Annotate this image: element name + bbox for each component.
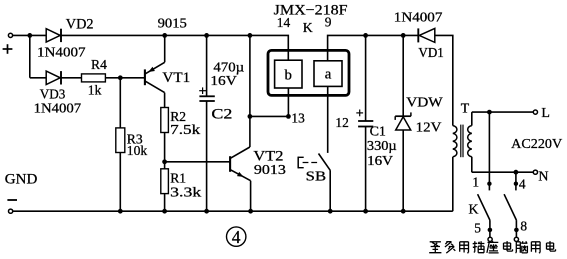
svg-text:VD3: VD3	[40, 87, 66, 102]
node L branch	[487, 110, 492, 115]
contact point 1	[487, 182, 491, 186]
wire node C to VT2 base	[165, 162, 230, 164]
diode VD2	[46, 29, 60, 42]
svg-text:8: 8	[520, 219, 527, 234]
wire C2 to ground	[206, 101, 208, 211]
wire R2 to R1	[164, 133, 166, 170]
svg-text:12: 12	[335, 115, 348, 130]
junction R1-ground	[162, 209, 167, 214]
svg-text:9015: 9015	[158, 16, 188, 31]
zener diode VDW	[396, 117, 411, 130]
svg-text:1k: 1k	[88, 83, 102, 98]
transformer T primary winding	[453, 126, 457, 157]
wire primary to ground rail	[452, 157, 454, 211]
svg-text:VD2: VD2	[66, 17, 94, 33]
wire top rail to C2	[206, 35, 208, 96]
svg-text:330µ: 330µ	[367, 138, 397, 153]
svg-text:L: L	[541, 106, 550, 121]
junction pin 13	[286, 114, 291, 119]
svg-text:16V: 16V	[367, 153, 393, 168]
wire top rail to C1	[365, 35, 367, 121]
switch K blade (1-5)	[478, 194, 490, 228]
capacitor C2	[199, 95, 214, 97]
junction VDW - top rail	[401, 33, 406, 38]
wire relay pin 13 (b to node D)	[287, 88, 289, 116]
label + (C1 polarity)	[356, 112, 363, 114]
contact point 5	[488, 228, 493, 233]
wire + down to VD3 branch	[30, 35, 47, 77]
wire top rail to VDW	[402, 35, 404, 116]
diode VD3	[46, 71, 60, 84]
switch SB blade	[319, 154, 331, 212]
terminal 8 output	[514, 237, 518, 241]
wire N down to contact 4	[515, 172, 517, 190]
svg-text:12V: 12V	[416, 121, 442, 136]
svg-text:b: b	[284, 68, 291, 84]
wire R1 to ground	[164, 194, 166, 212]
terminal + (positive input)	[8, 33, 12, 37]
junction R3-ground	[118, 209, 123, 214]
transistor VT2 collector	[230, 147, 250, 158]
junction SB-ground	[328, 209, 333, 214]
wire C1 to ground	[365, 127, 367, 212]
contact point 4	[514, 182, 518, 186]
svg-text:K: K	[469, 202, 479, 217]
wire VD3 to R4	[62, 77, 83, 79]
svg-text:14: 14	[277, 15, 291, 30]
wire secondary top to L	[472, 112, 534, 126]
label +	[3, 48, 13, 50]
resistor R2	[161, 108, 169, 133]
wire R4 to VT1 base	[105, 77, 144, 79]
svg-text:3.3k: 3.3k	[170, 184, 201, 199]
label figure number 4 (circled)	[227, 227, 246, 246]
node B (base of VT1 / R3)	[118, 75, 123, 80]
contact point 8	[514, 228, 519, 233]
transistor VT1 base bar	[144, 69, 146, 85]
svg-text:VD1: VD1	[418, 46, 443, 61]
svg-text:9013: 9013	[254, 162, 286, 177]
label + (C2 polarity)	[199, 90, 206, 92]
wire relay pin 14 (top rail into b)	[287, 50, 289, 60]
junction collector net - top rail	[248, 33, 253, 38]
svg-text:R1: R1	[170, 171, 186, 186]
svg-text:4: 4	[232, 227, 241, 247]
wire relay pin 9 (a to top rail)	[328, 35, 419, 60]
wire VD1 to transformer primary	[435, 35, 453, 125]
transistor VT1 collector (to R2)	[145, 81, 164, 107]
wire bottom rail (ground)	[13, 210, 453, 212]
wire relay pin 12 (a down to SB)	[327, 86, 329, 152]
svg-text:1N4007: 1N4007	[394, 10, 443, 25]
terminal GND	[9, 209, 13, 213]
wire secondary bottom to N	[472, 157, 534, 172]
svg-text:5: 5	[474, 221, 481, 236]
node D (relay coil node)	[248, 114, 253, 119]
wire node B down through R3 to ground	[119, 78, 121, 211]
svg-text:1N4007: 1N4007	[34, 101, 82, 116]
svg-text:9: 9	[325, 14, 332, 29]
relay K outer box	[268, 50, 349, 95]
svg-text:10k: 10k	[127, 143, 148, 158]
svg-text:N: N	[538, 170, 548, 185]
wire to output terminal (8)	[515, 230, 517, 237]
terminal 5 output	[488, 237, 492, 241]
svg-text:1N4007: 1N4007	[37, 45, 86, 60]
svg-text:GND: GND	[5, 170, 38, 187]
svg-text:a: a	[325, 66, 332, 82]
svg-text:C2: C2	[211, 107, 232, 123]
node C (VT2 base node)	[162, 159, 167, 164]
wire top rail down to VT2 collector	[249, 35, 251, 147]
transistor VT2 emitter (to ground)	[230, 170, 251, 212]
svg-text:K: K	[303, 20, 313, 35]
svg-text:1: 1	[472, 175, 479, 190]
junction C2 - top rail	[204, 33, 209, 38]
junction C2-ground	[204, 209, 209, 214]
terminal N	[533, 170, 537, 174]
transistor VT1 emitter (to top rail)	[145, 35, 164, 73]
switch K blade (4-8)	[504, 194, 516, 228]
junction C1-ground	[363, 209, 368, 214]
junction C1 - top rail	[363, 33, 368, 38]
resistor R4	[82, 74, 106, 82]
resistor R3	[116, 128, 125, 153]
svg-text:AC220V: AC220V	[511, 136, 562, 151]
svg-text:R4: R4	[91, 57, 107, 72]
wire node D to relay pin 13	[250, 115, 289, 117]
junction N - contact 4	[514, 170, 519, 175]
junction VDW-ground	[401, 209, 406, 214]
switch SB actuator	[297, 157, 299, 169]
svg-text:SB: SB	[306, 168, 326, 183]
junction VT2 emitter-ground	[248, 209, 253, 214]
svg-text:VT1: VT1	[162, 70, 190, 86]
relay coil b box	[275, 60, 302, 88]
transformer T secondary winding	[468, 126, 472, 157]
label - (minus)	[7, 199, 17, 201]
relay contact a box	[314, 61, 342, 87]
svg-text:T: T	[461, 100, 470, 115]
svg-text:16V: 16V	[210, 74, 236, 89]
label caption (Chinese): to multi-socket computer power	[429, 242, 441, 253]
svg-text:4: 4	[519, 177, 526, 192]
node A (+ split)	[27, 33, 32, 38]
resistor R1	[161, 169, 169, 194]
svg-text:VDW: VDW	[406, 96, 443, 111]
wire L branch down to contact 1	[488, 112, 490, 190]
diode VD1	[419, 28, 435, 42]
wire top rail (+ to relay pin 14)	[13, 35, 289, 60]
wire VDW to ground	[402, 130, 404, 211]
transformer T core	[460, 125, 462, 158]
terminal L	[533, 110, 537, 114]
transistor VT2 base bar	[229, 156, 231, 172]
svg-text:7.5k: 7.5k	[170, 122, 200, 137]
wire to output terminal (5)	[489, 230, 491, 237]
capacitor C1	[358, 120, 373, 122]
junction VT1 emitter - top rail	[162, 33, 167, 38]
svg-text:13: 13	[291, 111, 305, 126]
